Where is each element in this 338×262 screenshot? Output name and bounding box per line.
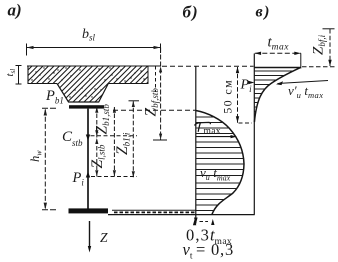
- P_i marker on v axis: [248, 81, 254, 84]
- tau_max level arrow: [196, 135, 237, 138]
- svg-text:б): б): [183, 3, 199, 22]
- level line y=110.3 (steel top level): [113, 109, 196, 111]
- dimension h_w: [42, 108, 58, 210]
- svg-text:50 см: 50 см: [221, 79, 235, 114]
- diagram b hatching: [195, 117, 250, 211]
- level line y=66.8 right of v curve: [302, 66, 337, 68]
- level line y=66.3 (slab top level, to diagrams): [162, 65, 254, 67]
- svg-text:а): а): [8, 1, 22, 20]
- dimension line Z_b1,stb / Z_l,stb (x=96.8): [93, 107, 103, 177]
- diagram b stress curve: [196, 111, 244, 215]
- Z axis arrow: [88, 221, 91, 253]
- level dashes P_i level: [91, 176, 137, 178]
- dimension t_max: [255, 52, 301, 69]
- dimension line Z_b1,i (x=114.4): [113, 107, 116, 177]
- dimension t_sl bracket: [16, 66, 22, 85]
- 0,3 t_max arrows: [193, 219, 215, 225]
- web: [87, 109, 89, 209]
- slab outline: [27, 66, 161, 92]
- haunch outline: [57, 84, 108, 103]
- diagram v axis: [253, 54, 255, 215]
- slab stipple dots: [31, 67, 144, 97]
- svg-text:Z: Z: [100, 230, 108, 245]
- dimension line Z_bf,stb (x=160.6): [153, 48, 167, 141]
- level dashes C level: [91, 135, 138, 137]
- svg-text:max: max: [204, 127, 221, 137]
- diagram b axis: [194, 66, 198, 225]
- bottom flange: [69, 208, 109, 213]
- diagram v hatching: [254, 71, 302, 116]
- dimension b_sl line: [27, 44, 161, 56]
- svg-text:в): в): [256, 4, 271, 21]
- C_stb marker on web: [86, 135, 90, 141]
- steel top flange: [69, 105, 104, 108]
- P_i marker on web: [86, 172, 90, 178]
- label tau_max: [195, 122, 211, 131]
- dimension Z_bf,i: [323, 29, 335, 67]
- dimension 50 cm: [236, 67, 252, 123]
- dimension line x=133.3 (slab bottom to P_i): [129, 101, 140, 178]
- slab hatching: [0, 58, 200, 112]
- bottom striped strip: [108, 210, 255, 214]
- diagram v curve: [254, 68, 300, 123]
- leader + label v'_u t_max: [276, 81, 328, 86]
